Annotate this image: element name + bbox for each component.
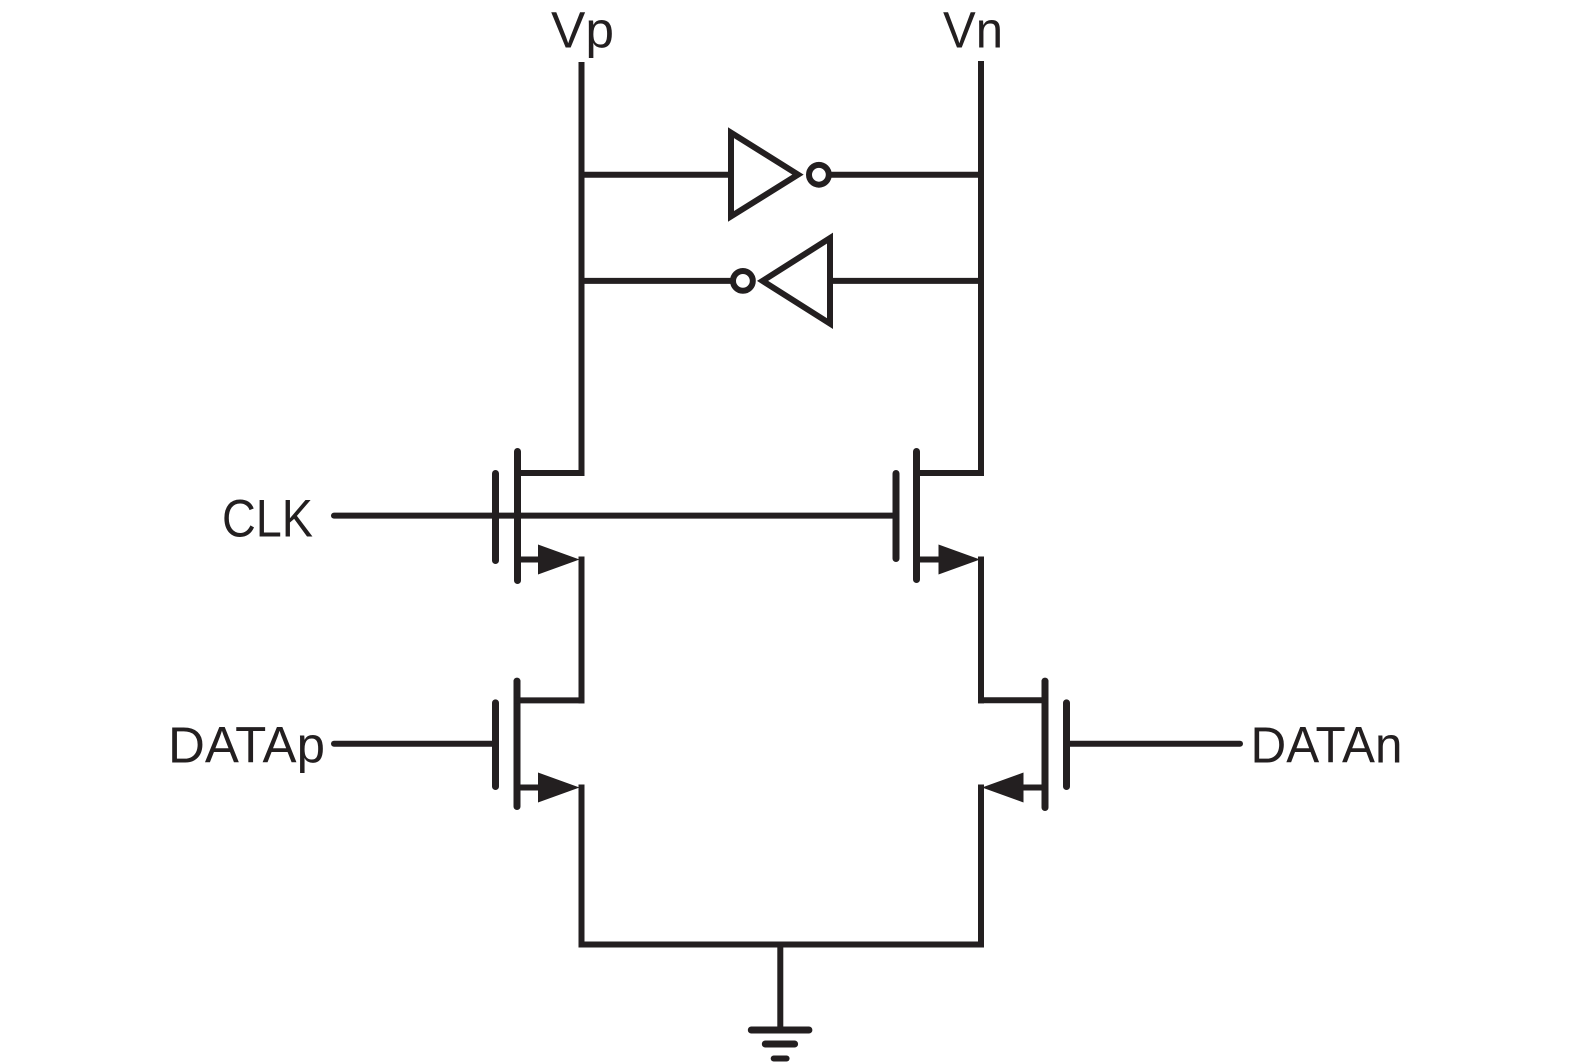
ground [751,1030,809,1059]
inverter U2 (bottom, pointing left) [733,238,830,324]
wire Vp rail [579,62,585,476]
svg-text:Vn: Vn [943,1,1003,58]
wire inverter U1 input from Vp [582,172,732,178]
wire inverter U1 output to Vn [819,172,981,178]
wire M3 source to tail node [579,785,585,948]
wire DATAn to M4 gate [1067,741,1241,747]
svg-text:Vp: Vp [551,1,614,58]
wire M4 source to tail node [978,785,984,948]
transistor M2 (right clock switch) [896,452,984,580]
svg-text:DATAp: DATAp [168,716,325,773]
wire inverter U2 output to Vp [582,278,743,284]
wire CLK to gates of M1 and M2 [334,513,896,519]
wire ground stem [777,945,783,1027]
inverter U1 (top, pointing right) [731,133,829,217]
transistor M1 (left clock switch) [496,452,585,581]
wire M2 source to M4 drain [978,557,984,704]
wire M1 source to M3 drain [579,557,585,704]
wire inverter U2 input from Vn [830,278,981,284]
svg-text:DATAn: DATAn [1251,717,1403,774]
transistor M4 (DATAn input, mirrored) [978,681,1067,807]
wire common tail [579,942,985,948]
transistor M3 (DATAp input) [496,681,585,806]
svg-text:CLK: CLK [222,489,313,548]
wire DATAp to M3 gate [334,741,496,747]
wire Vn rail [978,61,984,476]
